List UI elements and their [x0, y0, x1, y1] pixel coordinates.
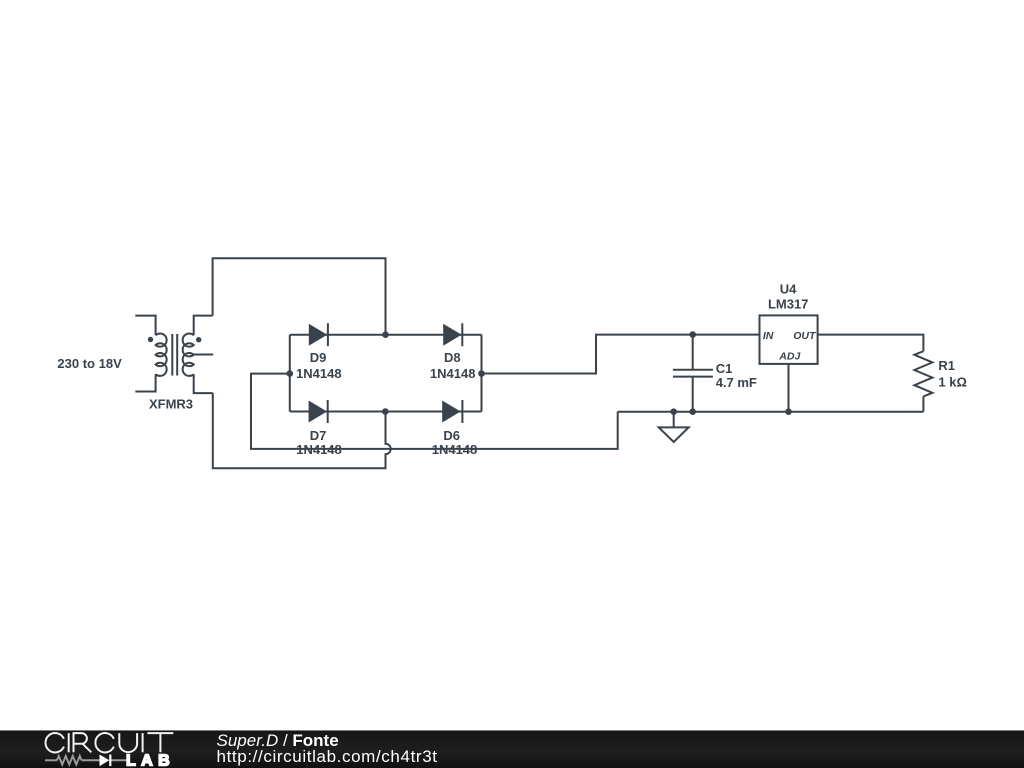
wire ADJ pin [788, 364, 790, 412]
node bridge right [478, 370, 485, 377]
svg-text:230 to 18V: 230 to 18V [57, 356, 122, 371]
svg-text:1 kΩ: 1 kΩ [938, 374, 967, 389]
primary bottom lead [135, 374, 155, 391]
svg-text:R1: R1 [938, 358, 955, 373]
footer caption [217, 733, 438, 767]
svg-text:4.7 mF: 4.7 mF [716, 375, 757, 390]
svg-text:LAB: LAB [126, 753, 175, 768]
logo letter I [68, 733, 70, 752]
logo letter R [74, 733, 92, 752]
secondary phase dot [196, 337, 201, 342]
svg-text:IN: IN [763, 330, 774, 342]
svg-text:D6: D6 [443, 428, 460, 443]
capacitor C1 [673, 335, 757, 412]
wire bridge output to regulator [482, 335, 760, 374]
svg-text:D7: D7 [310, 428, 327, 443]
svg-text:1N4148: 1N4148 [430, 366, 476, 381]
secondary bottom lead [194, 374, 213, 393]
diode D6 [432, 400, 478, 457]
wire bridge bottom rail [290, 411, 482, 413]
node bridge left [287, 370, 294, 377]
secondary top lead [194, 316, 213, 336]
wire bridge left vertical [289, 335, 291, 412]
svg-text:ADJ: ADJ [778, 351, 801, 363]
logo wire right [110, 759, 127, 761]
core lines [171, 334, 173, 376]
logo wire left [45, 759, 57, 761]
wire bridge right vertical [481, 335, 483, 412]
logo letter C [95, 733, 113, 752]
node capacitor bottom [689, 408, 696, 415]
logo letter C [46, 733, 64, 752]
resistor R1 [914, 351, 967, 412]
svg-text:LM317: LM317 [768, 297, 808, 312]
diode D7 [296, 400, 342, 457]
primary top lead [135, 316, 155, 336]
diode D9 [296, 323, 342, 381]
ground [659, 412, 689, 442]
node ADJ [785, 408, 792, 415]
logo wire mid [82, 759, 100, 761]
transformer XFMR3 [57, 316, 213, 412]
node ground [670, 408, 677, 415]
wire bridge top rail [290, 334, 482, 336]
svg-text:OUT: OUT [793, 330, 817, 342]
diode D8 [430, 323, 476, 381]
node top rail junction [382, 331, 389, 338]
node capacitor top [689, 331, 696, 338]
primary phase dot [148, 337, 153, 342]
svg-text:U4: U4 [780, 282, 797, 297]
op-amp U4 LM317 [760, 282, 818, 412]
svg-text:D8: D8 [444, 350, 461, 365]
svg-text:1N4148: 1N4148 [296, 366, 342, 381]
primary winding [156, 333, 167, 375]
wire bridge bottom to secondary (with hop) [213, 393, 391, 468]
wire secondary top to bridge [213, 258, 386, 334]
logo diode [100, 755, 110, 767]
svg-text:D9: D9 [310, 350, 327, 365]
logo letter U [119, 733, 137, 752]
svg-text:XFMR3: XFMR3 [149, 397, 193, 412]
wire bridge left to ground rail [251, 374, 618, 449]
wire OUT to R1 [818, 335, 924, 352]
CircuitLab logo [40, 728, 185, 768]
footer bar [0, 730, 1024, 768]
secondary center tap [194, 354, 214, 356]
wire ground rail [618, 411, 924, 413]
node bridge bottom junction [382, 408, 389, 415]
logo resistor [57, 756, 82, 765]
svg-text:C1: C1 [716, 361, 733, 376]
logo letter T [147, 733, 173, 752]
secondary winding [183, 333, 194, 375]
logo letter I [142, 733, 144, 752]
